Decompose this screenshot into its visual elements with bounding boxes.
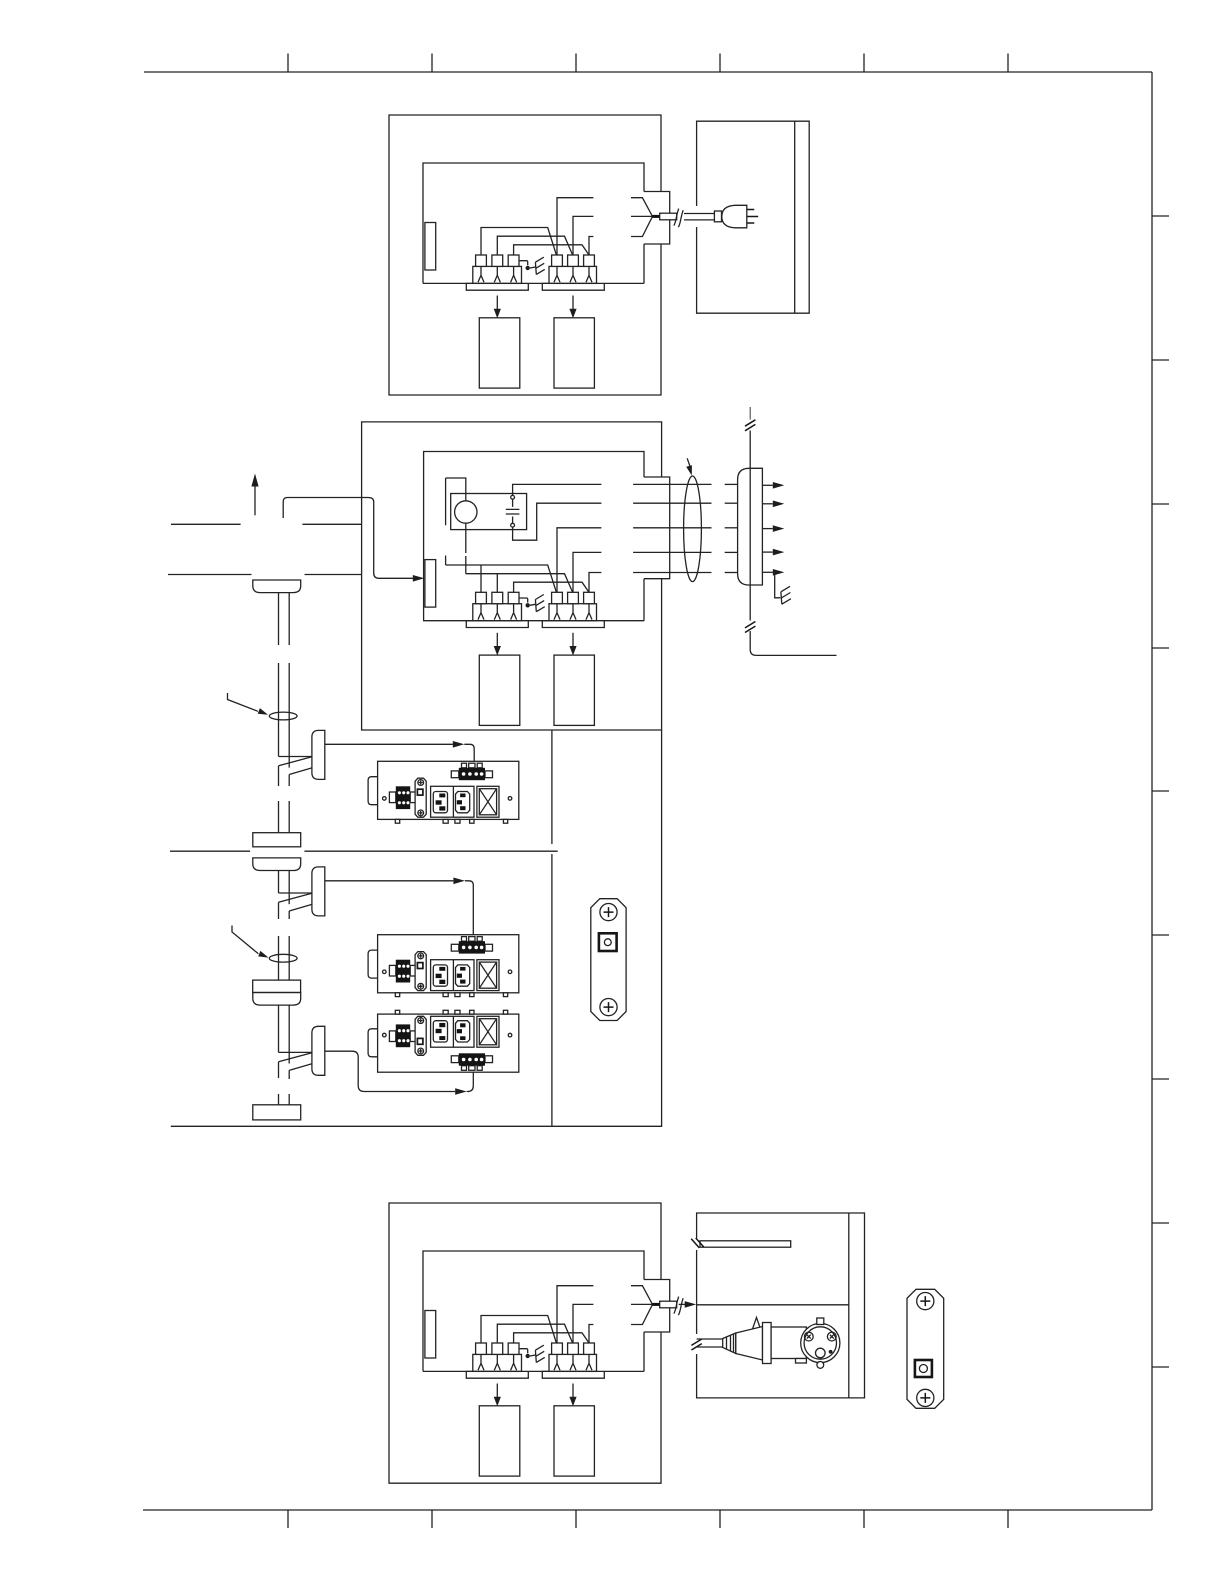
node bottom unit chassis tab bbox=[425, 1311, 436, 1359]
lamp LA1 bbox=[455, 501, 477, 523]
CEE pin L bbox=[804, 1332, 813, 1341]
CEE plug body bbox=[736, 1327, 763, 1361]
screw (plate G top) bbox=[600, 904, 617, 921]
wire pole 1 lower conductors bbox=[279, 766, 290, 833]
node top unit outer enclosure bbox=[389, 115, 661, 395]
wire callout leader to cable tie 1 bbox=[228, 693, 258, 711]
wire harness bottom unit bbox=[481, 1286, 683, 1343]
wire long horizontal run 2 bbox=[168, 574, 252, 576]
node power strip 3 (flipped) bbox=[368, 1010, 519, 1072]
wire feed from bracket 3 to strip 3 bbox=[325, 1051, 455, 1091]
node power strip 1 bbox=[368, 761, 519, 823]
node top unit inner chassis bbox=[423, 163, 644, 283]
wire level C (middle unit) bbox=[514, 582, 589, 592]
wire chassis bus vertical bbox=[749, 407, 751, 420]
wire feed arrow into distribution box bbox=[679, 1303, 686, 1305]
wire level B (middle unit) bbox=[466, 574, 573, 593]
node cable tie ellipse 2 bbox=[269, 954, 297, 962]
cable bundle ellipse bbox=[684, 476, 702, 582]
node junction block 2 bbox=[253, 980, 301, 992]
wire callout leader to cable bundle bbox=[687, 458, 690, 468]
node crossarm bracket 2 bbox=[279, 867, 325, 916]
node bottom unit harness notch bbox=[644, 1280, 670, 1333]
node DC jack on plate I2 bbox=[915, 1360, 932, 1377]
node pole cap 3 bbox=[253, 993, 301, 1006]
CEE pin N bbox=[827, 1332, 836, 1341]
wire frame: sheet border bottom bbox=[143, 1509, 1152, 1511]
wire long horizontal run 1 bbox=[171, 523, 241, 525]
lamp/relay module box bbox=[451, 494, 527, 530]
wire CN2 pin3 to harness w5 bbox=[589, 573, 601, 593]
wire outlet box inner wall bbox=[794, 121, 796, 313]
screw (plate G bottom) bbox=[600, 999, 617, 1016]
wire capacitor top to harness w1 bbox=[513, 484, 602, 495]
CEE pin E bbox=[816, 1348, 826, 1358]
node pole cap 1 bbox=[253, 580, 301, 593]
wire frame: sheet border top bbox=[144, 71, 1152, 73]
CEE plug cable bbox=[697, 1338, 723, 1340]
screw (plate I2 top) bbox=[917, 1293, 934, 1310]
wire feed from bracket 2 to strip 2 bbox=[325, 880, 454, 882]
wire harness top unit to power cord bbox=[481, 198, 683, 255]
node crossarm bracket 3 bbox=[279, 1026, 325, 1075]
screw (plate I2 bottom) bbox=[917, 1389, 934, 1406]
wire feed arrow into chassis tab (middle unit) bbox=[283, 498, 413, 579]
wire harness w1-w5 through notch bbox=[633, 484, 738, 572]
wire capacitor bottom to harness w2 bbox=[513, 503, 602, 540]
outlet box (top right) bbox=[697, 121, 810, 313]
node frame tick marks top bbox=[288, 54, 1008, 73]
wire bay bottom rail bbox=[171, 1125, 552, 1127]
node lower-right bay enclosure bbox=[552, 730, 662, 1126]
AC plug P1 bbox=[714, 211, 721, 222]
wire distribution box inner wall bbox=[848, 1213, 850, 1398]
wire callout leader to cable tie 2 bbox=[232, 926, 258, 954]
node DC jack on plate G bbox=[599, 933, 617, 951]
node top unit chassis tab bbox=[425, 223, 436, 271]
wire distribution box shelf divider bbox=[697, 1304, 849, 1306]
wire level A (middle unit) bbox=[446, 565, 557, 592]
node bottom unit inner chassis bbox=[423, 1251, 644, 1371]
CEE plug gland bbox=[723, 1333, 736, 1354]
connector CN1/CN2 block assembly (bottom unit) bbox=[423, 1343, 644, 1476]
node middle unit chassis tab bbox=[425, 560, 436, 608]
wire pole 2 conductors bbox=[279, 871, 290, 980]
connector CN1/CN2 block assembly (top unit) bbox=[423, 255, 644, 388]
node frame tick marks right bbox=[1152, 216, 1169, 1367]
node frame tick marks bottom bbox=[288, 1510, 1008, 1528]
wire pole 3 conductors bbox=[279, 1005, 290, 1105]
node bottom unit outer enclosure bbox=[389, 1203, 661, 1483]
wire TB1 output arrows bbox=[762, 482, 784, 576]
node middle unit outer enclosure bbox=[362, 422, 662, 730]
capacitor C1 bbox=[511, 495, 515, 499]
wire frame: sheet border right bbox=[1151, 72, 1153, 1510]
wire power cord (top unit) bbox=[684, 213, 714, 215]
node wall plate (DC jack) G bbox=[591, 899, 626, 1021]
CEE pilot dot bbox=[829, 1350, 833, 1354]
CEE connector face bbox=[801, 1323, 840, 1362]
wire pole 1 conductors bbox=[279, 593, 290, 768]
node busbar in distribution box bbox=[700, 1241, 791, 1247]
node cable tie ellipse 1 bbox=[269, 712, 297, 720]
node pole cap 2 bbox=[253, 858, 301, 871]
node top unit AC inlet notch bbox=[644, 192, 670, 245]
wire feed from bracket 1 to strip 1 bbox=[325, 743, 453, 745]
node wall plate (DC jack) I2 bbox=[907, 1289, 944, 1408]
node distribution box (bottom right) bbox=[697, 1213, 865, 1398]
node terminal board TB1 bbox=[738, 468, 763, 585]
wire long horizontal run 3 bbox=[170, 850, 250, 852]
wire up arrow (supply direction) bbox=[254, 487, 256, 516]
node junction block 3 bbox=[253, 1105, 301, 1120]
node middle unit inner chassis bbox=[424, 452, 644, 621]
wire CN2 pin1 to harness w3 bbox=[557, 528, 601, 593]
wire CN2 pin2 to harness w4 bbox=[573, 552, 601, 592]
node power strip 2 bbox=[368, 935, 519, 997]
wire lamp bottom lead bbox=[465, 523, 467, 574]
connector CN1/CN2 block assembly (middle unit) bbox=[423, 592, 644, 725]
ground chassis symbol at TB1 bbox=[775, 572, 791, 604]
wire lamp top lead bbox=[446, 478, 466, 565]
node crossarm bracket 1 bbox=[279, 730, 325, 779]
node middle unit harness notch bbox=[644, 477, 670, 579]
node junction block 1 bbox=[253, 833, 301, 847]
